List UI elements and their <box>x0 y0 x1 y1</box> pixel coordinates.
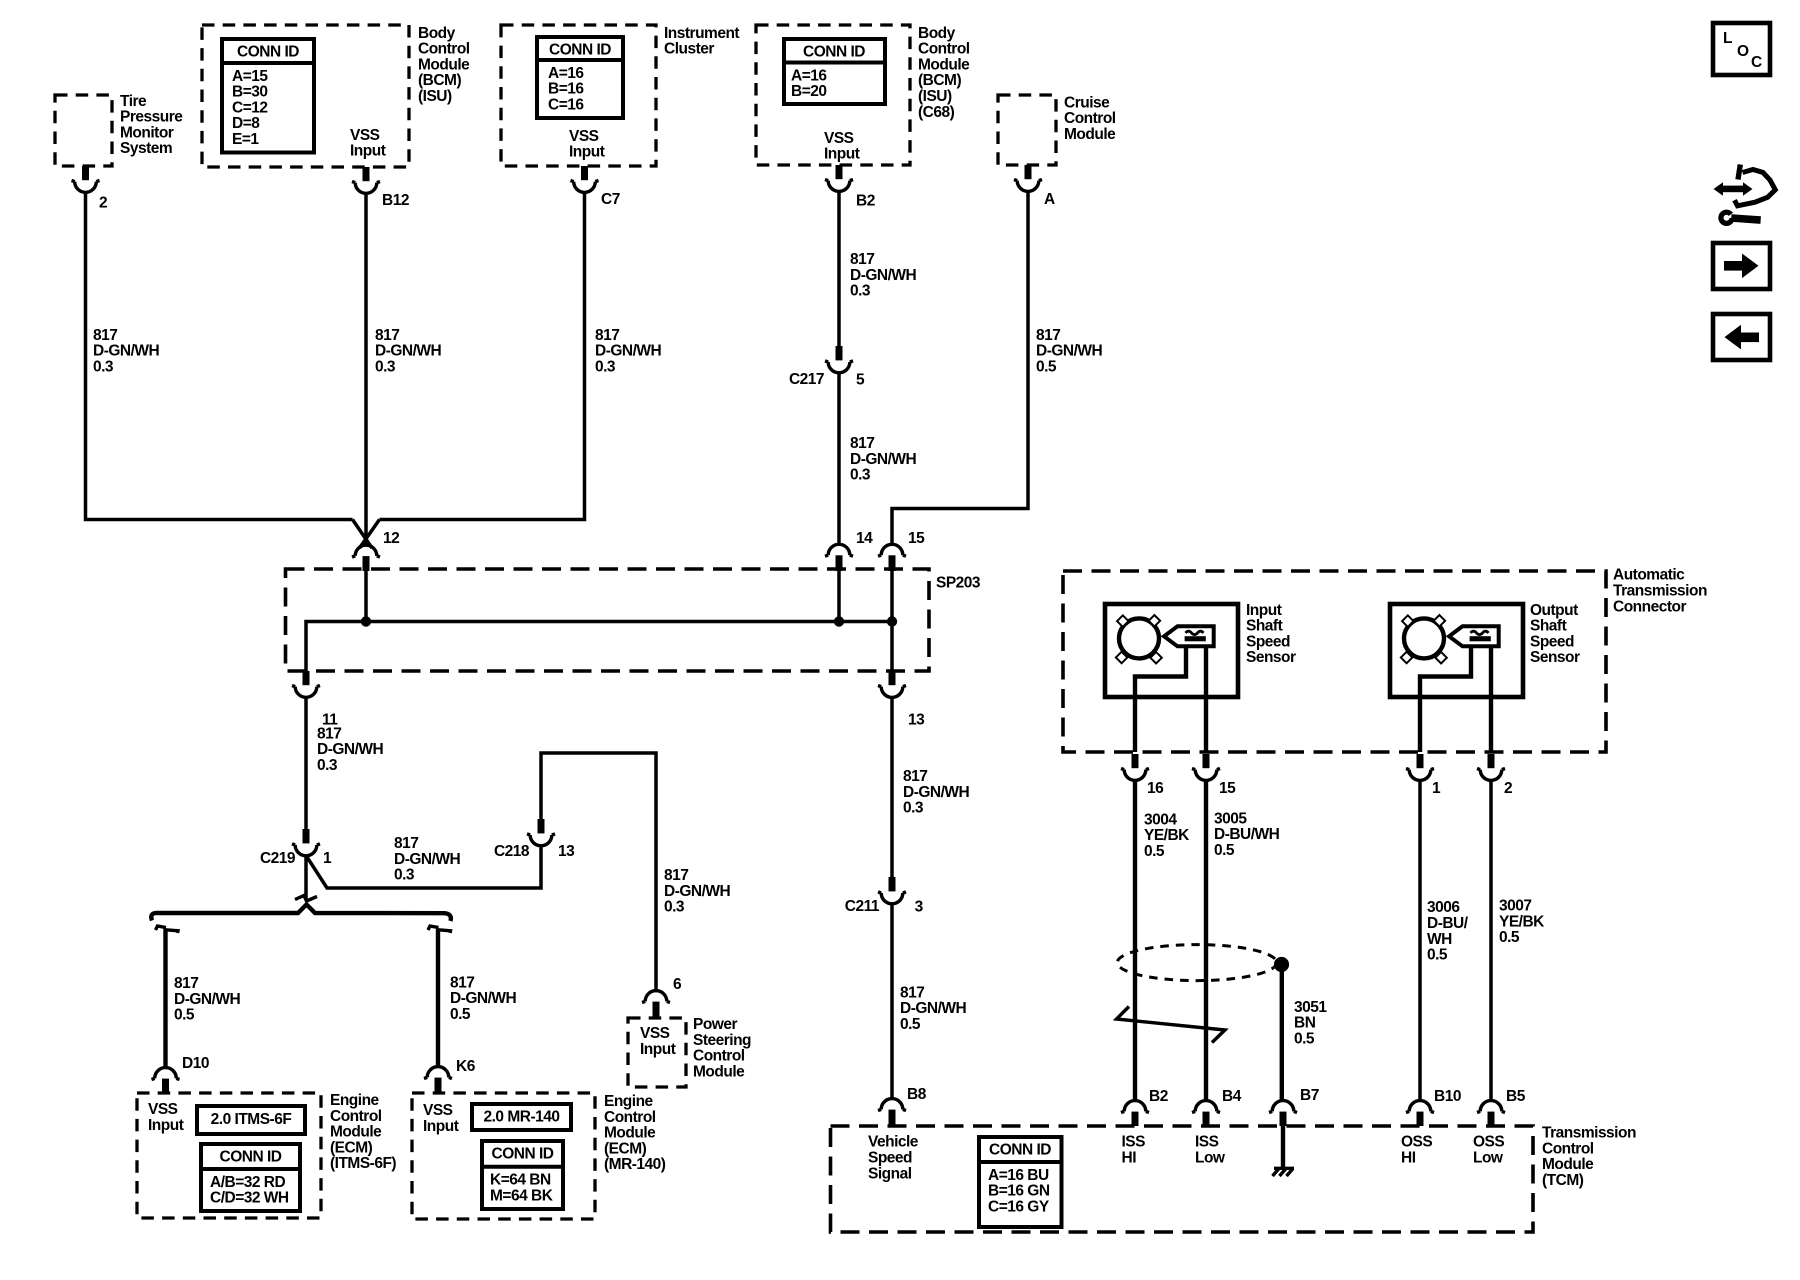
junction dot at pin 15 bus <box>887 616 897 626</box>
svg-text:Control: Control <box>918 41 970 58</box>
svg-text:A=16: A=16 <box>548 65 584 82</box>
wire from C218 up/right/down toward Power Steering pin 6 <box>541 753 656 990</box>
svg-text:2.0 MR-140: 2.0 MR-140 <box>484 1108 560 1125</box>
CONN ID table of ECM ITMS-6F <box>201 1144 300 1211</box>
svg-text:Engine: Engine <box>604 1093 654 1110</box>
wire label 3006 D-BU/WH 0.5 <box>1427 899 1469 963</box>
svg-text:(BCM): (BCM) <box>918 72 961 89</box>
connector pin C7 of Instrument Cluster <box>571 166 620 208</box>
legend box: arrow right <box>1713 243 1770 289</box>
twisted pair arrow symbol <box>1117 1007 1226 1043</box>
svg-text:ISS: ISS <box>1122 1134 1146 1151</box>
svg-text:Sensor: Sensor <box>1530 649 1580 666</box>
svg-text:Transmission: Transmission <box>1542 1125 1636 1142</box>
wire label 817 D-GN/WH 0.3 (cluster branch) <box>595 327 662 376</box>
svg-text:CONN ID: CONN ID <box>803 44 865 61</box>
svg-text:C218: C218 <box>494 843 530 860</box>
wire label 817 D-GN/WH 0.5 (left branch) <box>174 975 241 1024</box>
svg-text:(ECM): (ECM) <box>604 1140 647 1157</box>
svg-text:(ECM): (ECM) <box>330 1139 373 1156</box>
svg-text:(TCM): (TCM) <box>1542 1172 1584 1189</box>
svg-text:D10: D10 <box>182 1055 209 1072</box>
svg-text:817: 817 <box>903 768 927 785</box>
svg-text:C217: C217 <box>789 371 824 388</box>
wire label 3004 YE/BK 0.5 <box>1144 811 1190 860</box>
connector pin 2 of TPMS <box>72 166 108 211</box>
chassis ground symbol <box>1273 1168 1295 1176</box>
wire label 817 D-GN/WH 0.3 (pin 13 drop) <box>903 768 970 817</box>
wire label 817 D-GN/WH 0.3 (TPMS branch) <box>93 327 160 376</box>
svg-text:(BCM): (BCM) <box>418 72 461 89</box>
svg-text:3004: 3004 <box>1144 811 1177 828</box>
wire label 817 D-GN/WH 0.3 (power steering drop) <box>664 867 731 916</box>
CONN ID table of TCM (A=16 BU B=16 GN C=16 GY) <box>979 1137 1062 1227</box>
wire label 817 D-GN/WH 0.5 (cruise branch) <box>1036 327 1103 376</box>
svg-text:Module: Module <box>418 56 470 73</box>
wire label 817 D-GN/WH 0.3 (pin 11 drop) <box>317 725 384 774</box>
svg-text:Speed: Speed <box>1530 633 1574 650</box>
svg-text:Signal: Signal <box>868 1165 912 1182</box>
svg-text:B2: B2 <box>1149 1088 1168 1105</box>
svg-text:YE/BK: YE/BK <box>1144 827 1190 844</box>
svg-text:CONN ID: CONN ID <box>220 1149 282 1166</box>
svg-text:0.5: 0.5 <box>1427 947 1448 964</box>
splice brace (one wire splits to two) <box>151 905 451 922</box>
svg-text:D=8: D=8 <box>232 115 260 132</box>
wire label 3005 D-BU/WH 0.5 <box>1214 810 1280 859</box>
wire 3006 from pin 1 to TCM B10 <box>1418 780 1422 1100</box>
inline connector C218 pin 13 <box>494 819 575 860</box>
svg-text:Control: Control <box>693 1048 745 1065</box>
module: Instrument Cluster <box>501 25 739 166</box>
svg-text:2: 2 <box>99 194 107 211</box>
svg-text:B12: B12 <box>382 192 409 209</box>
junction dot at pin 14 bus <box>834 616 844 626</box>
CONN ID table of BCM C68 (A=16 B=20) <box>784 39 885 104</box>
wire from C211 down to TCM pin B8 <box>890 903 894 1099</box>
svg-text:15: 15 <box>908 530 925 547</box>
svg-text:OSS: OSS <box>1401 1134 1432 1151</box>
SP203 pin 15 (dome + stub) <box>878 530 925 571</box>
svg-text:0.5: 0.5 <box>1144 843 1165 860</box>
svg-text:C=16 GY: C=16 GY <box>988 1198 1050 1215</box>
svg-text:HI: HI <box>1122 1150 1137 1167</box>
svg-text:D-GN/WH: D-GN/WH <box>595 343 662 360</box>
wire 817 left branch down to ECM D10 <box>163 929 167 1068</box>
connector pin A of Cruise Control Module <box>1014 165 1055 208</box>
svg-text:13: 13 <box>558 843 575 860</box>
wire label 817 D-GN/WH 0.3 (BCM C68 branch) <box>850 251 917 300</box>
wire label 817 D-GN/WH 0.5 (C211 to TCM B8) <box>900 984 967 1033</box>
svg-text:VSS: VSS <box>824 130 854 147</box>
svg-text:Connector: Connector <box>1613 598 1686 615</box>
svg-text:VSS: VSS <box>148 1101 178 1118</box>
svg-text:0.3: 0.3 <box>850 467 871 484</box>
SP203 pin 11 (stub + cup below box) <box>292 671 338 729</box>
svg-text:YE/BK: YE/BK <box>1499 913 1545 930</box>
ATC pin 2 (stub + cup) <box>1477 754 1512 797</box>
Input Shaft Speed Sensor <box>1105 602 1296 697</box>
svg-text:Instrument: Instrument <box>664 25 739 42</box>
svg-text:OSS: OSS <box>1473 1134 1504 1151</box>
svg-text:2: 2 <box>1504 780 1512 797</box>
svg-text:B4: B4 <box>1222 1088 1242 1105</box>
svg-text:Body: Body <box>918 25 956 42</box>
svg-text:817: 817 <box>595 327 619 344</box>
svg-text:B8: B8 <box>907 1086 927 1103</box>
svg-text:817: 817 <box>900 984 924 1001</box>
svg-text:C211: C211 <box>845 898 880 915</box>
svg-text:0.5: 0.5 <box>900 1016 921 1033</box>
connector pin B4 of TCM <box>1192 1088 1242 1126</box>
module: Transmission Control Module (TCM) dashed box <box>831 1125 1636 1233</box>
svg-text:817: 817 <box>375 327 399 344</box>
svg-text:Steering: Steering <box>693 1032 751 1049</box>
connector pin D10 of ECM ITMS-6F <box>152 1055 209 1093</box>
wire from SP203 pin 13 down to C211 <box>890 697 894 877</box>
svg-text:2.0 ITMS-6F: 2.0 ITMS-6F <box>211 1111 292 1128</box>
wire branch from C219 right to C218 <box>306 846 541 888</box>
svg-text:C=12: C=12 <box>232 99 268 116</box>
svg-text:A: A <box>1044 191 1055 208</box>
connector pin B10 of TCM <box>1406 1088 1461 1126</box>
svg-text:D-BU/: D-BU/ <box>1427 915 1469 932</box>
module: Body Control Module (BCM)(ISU)(C68) <box>756 25 970 165</box>
svg-text:(ITMS-6F): (ITMS-6F) <box>330 1155 396 1172</box>
svg-text:SP203: SP203 <box>936 574 981 591</box>
svg-text:CONN ID: CONN ID <box>549 42 611 59</box>
svg-text:15: 15 <box>1219 780 1236 797</box>
svg-text:B=20: B=20 <box>791 83 827 100</box>
svg-text:Low: Low <box>1473 1150 1504 1167</box>
inline connector C211 pin 3 <box>845 877 924 915</box>
wire end squiggle above brace <box>295 896 317 902</box>
svg-text:Shaft: Shaft <box>1246 618 1283 635</box>
svg-text:0.3: 0.3 <box>595 359 616 376</box>
svg-text:Automatic: Automatic <box>1613 567 1685 584</box>
svg-text:C219: C219 <box>260 850 296 867</box>
wire from C219 down to splice brace <box>304 855 308 899</box>
svg-text:A/B=32 RD: A/B=32 RD <box>210 1174 285 1191</box>
wire label 817 D-GN/WH 0.3 (below C217) <box>850 435 917 484</box>
inline connector C217 pin 5 <box>789 346 865 388</box>
svg-text:Low: Low <box>1195 1150 1226 1167</box>
svg-text:O: O <box>1737 43 1749 60</box>
wire 3007 from pin 2 to TCM B5 <box>1489 780 1493 1100</box>
svg-text:0.5: 0.5 <box>1036 359 1057 376</box>
svg-text:D-GN/WH: D-GN/WH <box>317 741 384 758</box>
label box 2.0 ITMS-6F <box>197 1106 305 1134</box>
svg-text:16: 16 <box>1147 780 1164 797</box>
svg-text:System: System <box>120 140 172 157</box>
svg-text:Module: Module <box>604 1125 656 1142</box>
svg-text:B=16 GN: B=16 GN <box>988 1183 1050 1200</box>
svg-text:Cluster: Cluster <box>664 41 714 58</box>
connector pin B2 of TCM <box>1121 1088 1168 1126</box>
ground wire inside TCM from B7 <box>1281 1126 1285 1168</box>
svg-text:C: C <box>1751 54 1762 71</box>
svg-text:Input: Input <box>350 143 386 160</box>
junction dot on ellipse (drain) <box>1274 957 1289 972</box>
svg-text:Pressure: Pressure <box>120 109 183 126</box>
svg-text:0.3: 0.3 <box>317 757 338 774</box>
svg-text:13: 13 <box>908 712 925 729</box>
connector pin B2 of BCM C68 <box>825 165 875 209</box>
svg-text:VSS: VSS <box>423 1102 453 1119</box>
module: Body Control Module (BCM)(ISU) <box>202 25 470 167</box>
svg-text:D-GN/WH: D-GN/WH <box>394 851 461 868</box>
svg-text:(C68): (C68) <box>918 104 955 121</box>
ATC pin 15 (stub + cup) <box>1192 754 1236 797</box>
wire 817 from Instrument Cluster pin C7 down and left to splice junction 12 <box>380 192 585 520</box>
svg-text:817: 817 <box>664 867 688 884</box>
wire label 817 D-GN/WH 0.5 (right branch) <box>450 974 517 1023</box>
svg-text:3051: 3051 <box>1294 999 1327 1016</box>
svg-text:B7: B7 <box>1300 1087 1319 1104</box>
inline connector C219 pin 1 <box>260 829 332 867</box>
connector pin 6 of Power Steering Control Module <box>642 976 682 1018</box>
svg-text:0.5: 0.5 <box>1214 842 1235 859</box>
CONN ID table of Instrument Cluster (A=16 B=16 C=16) <box>537 37 623 118</box>
svg-text:VSS: VSS <box>640 1025 670 1042</box>
svg-text:817: 817 <box>850 435 874 452</box>
svg-text:Module: Module <box>918 56 970 73</box>
svg-text:Module: Module <box>693 1063 745 1080</box>
TCM label ISS HI <box>1122 1134 1146 1167</box>
svg-text:B=30: B=30 <box>232 84 268 101</box>
svg-text:D-GN/WH: D-GN/WH <box>174 991 241 1008</box>
svg-text:D-GN/WH: D-GN/WH <box>375 343 442 360</box>
svg-text:Monitor: Monitor <box>120 124 174 141</box>
wire 817 right branch down to ECM K6 <box>436 929 440 1067</box>
svg-text:14: 14 <box>856 530 873 547</box>
svg-text:Engine: Engine <box>330 1092 380 1109</box>
svg-text:0.5: 0.5 <box>1294 1031 1315 1048</box>
svg-text:WH: WH <box>1427 931 1452 948</box>
branch hook right (wire start) <box>428 926 451 933</box>
connector pin B12 of BCM <box>352 167 409 209</box>
svg-text:1: 1 <box>1432 780 1441 797</box>
svg-text:Speed: Speed <box>868 1150 912 1167</box>
svg-text:B5: B5 <box>1506 1088 1526 1105</box>
svg-text:ISS: ISS <box>1195 1134 1219 1151</box>
svg-text:1: 1 <box>323 850 332 867</box>
svg-text:3007: 3007 <box>1499 898 1531 915</box>
svg-text:D-GN/WH: D-GN/WH <box>900 1000 967 1017</box>
module: Engine Control Module (ECM)(MR-140) <box>412 1093 666 1219</box>
svg-text:HI: HI <box>1401 1150 1416 1167</box>
TCM label OSS HI <box>1401 1134 1432 1167</box>
ATC pin 16 (stub + cup) <box>1121 754 1164 797</box>
svg-text:C/D=32 WH: C/D=32 WH <box>210 1190 289 1207</box>
LOC legend box <box>1713 23 1770 75</box>
svg-text:Output: Output <box>1530 602 1578 619</box>
ATC pin 1 (stub + cup) <box>1406 754 1441 797</box>
svg-text:Module: Module <box>330 1124 382 1141</box>
svg-text:L: L <box>1723 30 1732 47</box>
splice pack SP203 dashed box <box>286 569 981 671</box>
module: Power Steering Control Module <box>628 1016 751 1087</box>
wire label 3007 YE/BK 0.5 <box>1499 898 1545 947</box>
wire label 817 D-GN/WH 0.3 (C219 to C218 run) <box>394 835 461 884</box>
svg-text:Transmission: Transmission <box>1613 583 1707 600</box>
svg-text:0.3: 0.3 <box>394 867 415 884</box>
svg-text:CONN ID: CONN ID <box>492 1146 554 1163</box>
connector pin B5 of TCM <box>1477 1088 1526 1126</box>
svg-text:Control: Control <box>604 1109 656 1126</box>
CONN ID table of BCM (A=15 B=30 C=12 D=8 E=1) <box>222 39 314 153</box>
svg-text:0.3: 0.3 <box>664 899 685 916</box>
svg-text:(ISU): (ISU) <box>418 88 452 105</box>
TCM label OSS Low <box>1473 1134 1504 1167</box>
SP203 pin 12 (dome + stub) <box>352 530 399 571</box>
svg-text:D-GN/WH: D-GN/WH <box>664 883 731 900</box>
svg-text:817: 817 <box>394 835 418 852</box>
legend box: arrow left <box>1713 314 1770 360</box>
svg-text:(ISU): (ISU) <box>918 88 952 105</box>
svg-text:B10: B10 <box>1434 1088 1461 1105</box>
svg-text:0.3: 0.3 <box>375 359 396 376</box>
svg-text:Input: Input <box>569 144 605 161</box>
svg-text:D-GN/WH: D-GN/WH <box>93 343 160 360</box>
svg-text:Control: Control <box>1064 110 1116 127</box>
wire 817 from TPMS pin 2 down and right to splice junction 12 <box>86 192 353 520</box>
wire label 817 D-GN/WH 0.3 (BCM branch) <box>375 327 442 376</box>
branch hook left (wire start) <box>156 926 179 933</box>
TCM label ISS Low <box>1195 1134 1226 1167</box>
Automatic Transmission Connector dashed box <box>1063 567 1707 752</box>
svg-text:0.5: 0.5 <box>1499 929 1520 946</box>
module: Engine Control Module (ECM)(ITMS-6F) <box>137 1092 396 1218</box>
connector pin B7 of TCM <box>1269 1087 1319 1126</box>
svg-text:Module: Module <box>1542 1156 1594 1173</box>
svg-text:D-GN/WH: D-GN/WH <box>1036 343 1103 360</box>
svg-text:CONN ID: CONN ID <box>989 1142 1051 1159</box>
ISS sensor internal wires <box>1135 646 1206 752</box>
svg-text:M=64 BK: M=64 BK <box>490 1187 554 1204</box>
wire 3005 from pin 15 to TCM B4 <box>1204 780 1208 1100</box>
svg-text:D-GN/WH: D-GN/WH <box>450 990 517 1007</box>
svg-text:817: 817 <box>317 725 341 742</box>
junction V into SP203 pin 12 (crossing wires) <box>353 520 380 549</box>
svg-text:(MR-140): (MR-140) <box>604 1156 666 1173</box>
module: Tire Pressure Monitor System <box>55 93 183 166</box>
svg-text:817: 817 <box>850 251 874 268</box>
Output Shaft Speed Sensor <box>1390 602 1580 697</box>
module: Cruise Control Module <box>998 94 1116 165</box>
svg-text:Module: Module <box>1064 126 1116 143</box>
svg-text:0.3: 0.3 <box>850 283 871 300</box>
svg-text:6: 6 <box>673 976 682 993</box>
svg-text:Input: Input <box>423 1118 459 1135</box>
svg-text:817: 817 <box>93 327 117 344</box>
svg-text:K6: K6 <box>456 1058 476 1075</box>
svg-text:Cruise: Cruise <box>1064 94 1110 111</box>
svg-text:A=15: A=15 <box>232 68 268 85</box>
junction dot at pin 12 bus <box>361 616 371 626</box>
SP203 internal bus wire <box>306 571 897 671</box>
svg-text:12: 12 <box>383 530 399 547</box>
svg-text:Vehicle: Vehicle <box>868 1134 919 1151</box>
SP203 pin 14 (dome + stub) <box>825 530 873 571</box>
svg-text:817: 817 <box>1036 327 1060 344</box>
svg-text:817: 817 <box>174 975 198 992</box>
svg-text:E=1: E=1 <box>232 131 259 148</box>
svg-text:B2: B2 <box>856 192 875 209</box>
svg-text:3005: 3005 <box>1214 810 1247 827</box>
svg-text:Power: Power <box>693 1016 737 1033</box>
svg-text:VSS: VSS <box>350 127 380 144</box>
wire 817 from C217 down to SP203 pin 14 <box>837 372 841 544</box>
svg-text:D-GN/WH: D-GN/WH <box>903 784 970 801</box>
SP203 pin 13 (stub + cup below box) <box>878 671 925 729</box>
connector pin B8 of TCM <box>878 1086 927 1126</box>
CONN ID table of ECM MR-140 <box>482 1141 563 1209</box>
wire label 3051 BN 0.5 <box>1294 999 1327 1048</box>
svg-text:D-GN/WH: D-GN/WH <box>850 267 917 284</box>
svg-text:Speed: Speed <box>1246 633 1290 650</box>
svg-text:BN: BN <box>1294 1015 1316 1032</box>
svg-text:Sensor: Sensor <box>1246 649 1296 666</box>
svg-text:B=16: B=16 <box>548 81 584 98</box>
svg-text:Body: Body <box>418 25 456 42</box>
wire from SP203 pin 11 down to C219 <box>304 697 308 829</box>
svg-text:C=16: C=16 <box>548 96 584 113</box>
navigation icon (arrows over wrench) <box>1714 165 1776 224</box>
svg-text:CONN ID: CONN ID <box>237 44 299 61</box>
svg-text:D-GN/WH: D-GN/WH <box>850 451 917 468</box>
svg-text:0.5: 0.5 <box>174 1007 195 1024</box>
svg-text:Input: Input <box>824 146 860 163</box>
wire 3004 from pin 16 to TCM B2 <box>1133 780 1137 1100</box>
svg-text:A=16: A=16 <box>791 67 827 84</box>
svg-text:Input: Input <box>640 1041 676 1058</box>
svg-text:VSS: VSS <box>569 128 599 145</box>
svg-text:Control: Control <box>1542 1140 1594 1157</box>
svg-text:5: 5 <box>856 371 865 388</box>
TCM label Vehicle Speed Signal <box>868 1134 919 1183</box>
wire 817 from BCM C68 pin B2 down to C217 <box>837 191 841 346</box>
svg-text:Control: Control <box>418 41 470 58</box>
wire 3051 BN 0.5 from dot to TCM B7 <box>1280 965 1284 1101</box>
OSS sensor internal wires <box>1420 646 1491 752</box>
svg-text:3006: 3006 <box>1427 899 1460 916</box>
svg-text:0.5: 0.5 <box>450 1006 471 1023</box>
wire 817 from Cruise pin A down/left to SP203 pin 15 <box>892 191 1028 545</box>
svg-text:3: 3 <box>915 898 924 915</box>
svg-text:D-BU/WH: D-BU/WH <box>1214 826 1280 843</box>
svg-text:Tire: Tire <box>120 93 147 110</box>
twisted pair ellipse around ISS wires <box>1117 945 1276 981</box>
svg-text:A=16 BU: A=16 BU <box>988 1167 1049 1184</box>
svg-text:817: 817 <box>450 974 474 991</box>
svg-text:0.3: 0.3 <box>903 800 924 817</box>
connector pin K6 of ECM MR-140 <box>424 1058 476 1093</box>
svg-text:0.3: 0.3 <box>93 359 114 376</box>
svg-text:Control: Control <box>330 1108 382 1125</box>
svg-text:Shaft: Shaft <box>1530 618 1567 635</box>
svg-text:K=64 BN: K=64 BN <box>490 1172 551 1189</box>
svg-text:Input: Input <box>148 1117 184 1134</box>
label box 2.0 MR-140 <box>472 1104 571 1130</box>
svg-text:C7: C7 <box>601 191 620 208</box>
svg-text:Input: Input <box>1246 602 1282 619</box>
wire 817 from BCM pin B12 down to splice junction 12 <box>364 193 368 544</box>
